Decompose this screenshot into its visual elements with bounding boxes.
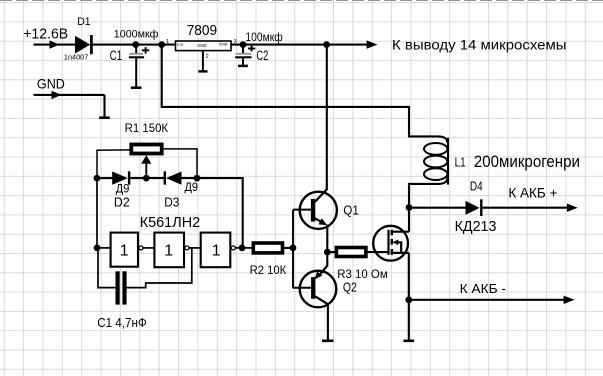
inverter 1 bubble (139, 246, 143, 250)
node regulator output junction (240, 41, 247, 48)
capacitor C2 (235, 45, 251, 66)
svg-text:R1 150К: R1 150К (125, 121, 169, 135)
svg-text:1: 1 (120, 243, 129, 260)
svg-text:1000мкф: 1000мкф (114, 29, 159, 41)
resistor R2 (253, 243, 282, 253)
inverter 1 box (111, 233, 138, 267)
source terminal bar (404, 339, 415, 342)
wire regulator output rail (231, 44, 367, 46)
svg-text:1: 1 (166, 39, 169, 45)
svg-text:D4: D4 (470, 179, 483, 194)
svg-text:Vout: Vout (219, 42, 228, 48)
wire D4 to AKB plus (483, 207, 568, 209)
svg-text:C1: C1 (110, 48, 123, 63)
node diode row left junction (94, 175, 101, 182)
resistor R1 (131, 145, 161, 154)
svg-text:К АКБ -: К АКБ - (460, 281, 506, 296)
inverter 3 box (201, 233, 231, 268)
wire GND down (103, 95, 105, 117)
svg-text:Д9: Д9 (185, 182, 199, 194)
svg-text:C1 4,7нФ: C1 4,7нФ (97, 316, 147, 330)
node drain junction (406, 204, 413, 211)
svg-text:R3 10 Ом: R3 10 Ом (337, 269, 388, 281)
wire regulator ground pin (202, 51, 204, 71)
svg-text:L1: L1 (455, 156, 466, 170)
svg-text:К АКБ +: К АКБ + (508, 186, 557, 201)
svg-text:GND: GND (197, 43, 207, 48)
wire drain up to node (408, 208, 410, 232)
wire emitter node to R3 (327, 251, 336, 253)
wire 12V feed down from regulator input (162, 45, 409, 138)
svg-text:2: 2 (206, 54, 209, 60)
AKB plus arrowhead (567, 204, 578, 212)
wire left column to inverter input (96, 178, 98, 248)
node base drive junction (290, 245, 297, 252)
node emitter junction (324, 249, 331, 256)
wire AKB minus (409, 299, 564, 301)
inverter 2 bubble (185, 246, 189, 250)
regulator ground terminal bar (198, 70, 207, 72)
node R2 input junction (239, 245, 246, 252)
wire inverter1 to inverter2 (143, 247, 154, 249)
regulator U1 7809 box (176, 41, 232, 51)
wire GND input (34, 94, 105, 96)
Q2 collector terminal bar (322, 339, 333, 342)
C2 ground terminal bar (238, 65, 248, 68)
resistor R3 (336, 248, 366, 257)
inverter 3 bubble (231, 246, 235, 250)
C1 plus polarity mark (142, 47, 149, 54)
wire between D2 and D3 (130, 177, 164, 179)
node diode row right junction (194, 175, 201, 182)
node source junction (405, 296, 412, 303)
svg-text:7809: 7809 (187, 22, 217, 39)
svg-text:Q1: Q1 (343, 202, 359, 217)
C1 ground terminal bar (131, 86, 142, 89)
wire R3 to gate (366, 251, 388, 253)
svg-text:200микрогенри: 200микрогенри (474, 152, 580, 171)
wire source column down (408, 253, 410, 341)
GND terminal bar (99, 116, 110, 119)
svg-text:Q2: Q2 (343, 280, 357, 294)
svg-text:1: 1 (212, 243, 221, 260)
node 9V rail junction (323, 41, 330, 48)
wire input node to inverter 1 (97, 247, 111, 249)
node wiper junction (143, 175, 150, 182)
wire R2 to base node (284, 247, 293, 249)
svg-text:D1: D1 (77, 16, 90, 28)
transistor Q1 (300, 189, 337, 229)
diode D4 (466, 199, 482, 216)
svg-text:V in: V in (177, 42, 184, 48)
R1 wiper arrow (141, 155, 151, 178)
wire Q1 base lead (293, 209, 311, 211)
capacitor C1 (129, 45, 144, 88)
svg-text:D3: D3 (164, 195, 179, 210)
transistor Q2 (300, 266, 337, 308)
arrowhead to pin 14 (367, 40, 378, 48)
AKB minus arrowhead (564, 296, 575, 304)
node C1 tap junction (132, 41, 139, 48)
wire diode row (97, 177, 112, 179)
svg-text:1n4007: 1n4007 (64, 54, 89, 61)
page top dashed border (0, 0, 603, 2)
svg-text:К561ЛН2: К561ЛН2 (140, 214, 201, 231)
GND arrowhead (52, 91, 62, 99)
wire 9V rail down to Q1 collector (326, 45, 328, 190)
wire drain node to D4 (409, 207, 466, 209)
wire feedback via C1 (98, 248, 192, 288)
wire input to D1 anode (34, 44, 76, 46)
wire R1 right lead (162, 149, 197, 178)
diode D1 (75, 35, 91, 54)
wire L1 bottom to drain node (408, 183, 410, 209)
node inverter input junction (94, 245, 101, 252)
svg-text:КД213: КД213 (455, 219, 497, 235)
wire D1 cathode to regulator input (93, 44, 175, 46)
svg-text:R2 10К: R2 10К (250, 263, 287, 277)
svg-text:1: 1 (164, 243, 173, 260)
svg-text:100мкф: 100мкф (245, 32, 282, 44)
diode D3 (165, 171, 182, 184)
wire D3 to right corner then down to R2 input (182, 178, 243, 248)
node regulator input junction (158, 41, 165, 48)
inductor L1 (409, 136, 448, 184)
wire R1 left lead (97, 150, 130, 178)
svg-text:D2: D2 (114, 194, 130, 209)
capacitor C1 4.7nF (118, 271, 125, 304)
svg-text:+12.6В: +12.6В (23, 27, 68, 43)
wire inverter3 to R2 (235, 247, 253, 249)
diode D2 (112, 171, 129, 184)
wire Q1 emitter to Q2 emitter (326, 225, 328, 267)
svg-text:GND: GND (37, 75, 65, 91)
svg-text:К выводу 14 микросхемы: К выводу 14 микросхемы (392, 38, 567, 53)
wire inverter2 to inverter3 (189, 247, 201, 249)
svg-text:C2: C2 (256, 48, 268, 63)
wire Q2 collector down (327, 304, 329, 341)
transistor MOSFET (373, 226, 409, 261)
wire Q2 base lead (293, 287, 311, 289)
wire base column (292, 210, 294, 289)
C2 plus polarity mark (248, 46, 255, 52)
inverter 2 box (154, 233, 184, 268)
input arrowhead (50, 40, 60, 48)
